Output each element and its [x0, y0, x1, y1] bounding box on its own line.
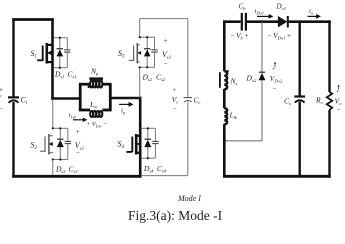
svg-text:Ns: Ns [230, 77, 238, 87]
diode Ds1 [57, 49, 64, 57]
transformer box [79, 83, 112, 111]
capacitor Cb [239, 3, 247, 31]
diode Ds2 [144, 49, 151, 57]
capacitor Co [284, 97, 305, 107]
snubber box S4 (Ds4 Cs4) [140, 128, 155, 158]
capacitor Cs3 [65, 141, 71, 143]
svg-text:ip: ip [121, 107, 126, 116]
junction dot node at Co branch [298, 20, 301, 23]
diode Do1 [276, 3, 288, 28]
wire right rail upper [328, 20, 330, 92]
diode Ds4 [144, 139, 151, 147]
svg-text:+: + [173, 87, 177, 94]
svg-text:S2: S2 [31, 141, 38, 152]
svg-text:−: − [337, 107, 341, 114]
junction dot node at Do2 branch [261, 20, 264, 23]
winding Np [88, 67, 103, 89]
svg-text:Vs3: Vs3 [162, 50, 172, 60]
svg-text:−: − [173, 106, 177, 113]
svg-text:Vc: Vc [172, 95, 179, 105]
svg-text:S3: S3 [118, 49, 125, 60]
svg-text:io: io [309, 8, 314, 16]
wire Co branch lower [299, 102, 301, 178]
clamp top wire thin [140, 18, 188, 20]
diode Ds3 [57, 139, 64, 147]
junction dot Co bottom [298, 175, 301, 178]
svg-text:Cs3: Cs3 [69, 165, 79, 175]
capacitor Cs4 [152, 141, 158, 143]
svg-text:V: V [0, 95, 2, 103]
junction dot S4 bottom [139, 175, 142, 178]
junction dot bottom S2 [52, 175, 55, 178]
winding Lm [89, 100, 102, 117]
svg-text:Ds1: Ds1 [54, 70, 64, 80]
label Vc [172, 87, 179, 113]
svg-text:Cs1: Cs1 [68, 70, 77, 80]
wire secondary bottom rail [223, 175, 331, 178]
wire left rail lower [12, 102, 14, 178]
junction dot rail at Do2 return [223, 139, 226, 142]
wire right rail lower [328, 110, 330, 178]
snubber box S1 (Ds1 Cs1) [53, 38, 68, 68]
wire secondary left rail lower [223, 124, 226, 177]
wire bottom rail primary [12, 175, 141, 178]
wire thin S3 bus [139, 18, 141, 37]
svg-text:S4: S4 [118, 140, 125, 151]
svg-text:Np: Np [90, 67, 99, 77]
svg-text:Ds2: Ds2 [142, 73, 153, 83]
svg-text:iDo1: iDo1 [255, 8, 265, 16]
svg-text:+ VLm −: + VLm − [87, 121, 108, 129]
snubber box S2 (Ds3 Cs3) [53, 128, 68, 159]
svg-text:Mode I: Mode I [177, 194, 201, 203]
svg-text:Cs2: Cs2 [156, 73, 166, 83]
wire Do2 branch vertical [261, 22, 263, 72]
wire S1 leg vertical [51, 18, 54, 99]
junction dots S4 cell [139, 127, 149, 159]
wire secondary top mid [247, 20, 278, 23]
svg-text:Vo: Vo [335, 97, 343, 107]
current arrow io [308, 8, 322, 19]
svg-text:+: + [336, 89, 340, 96]
label VDo2 [270, 62, 283, 94]
wire transformer to right leg [109, 97, 142, 100]
svg-text:iLm: iLm [69, 112, 77, 120]
capacitor Cc [184, 96, 201, 106]
svg-text:Cs4: Cs4 [157, 164, 167, 174]
snubber box S3 (Ds2 Cs2) [140, 37, 155, 67]
svg-text:+: + [164, 37, 168, 45]
wire thin S2 drain [52, 100, 54, 129]
svg-text:Do2: Do2 [246, 74, 258, 84]
current arrow iLm [69, 112, 88, 122]
svg-text:−: − [0, 105, 3, 113]
svg-text:Lm: Lm [89, 100, 98, 110]
svg-text:Fig.3(a): Mode -I: Fig.3(a): Mode -I [128, 208, 223, 223]
wire secondary left rail upper [223, 20, 226, 71]
node Vin marks (clipped at edge) [0, 86, 3, 113]
winding Ns [220, 70, 238, 89]
junction dots S3 cell [139, 36, 149, 68]
svg-text:Do1: Do1 [276, 3, 287, 12]
svg-text:S1: S1 [31, 49, 38, 60]
label Vs3 [162, 37, 172, 68]
svg-text:−: − [76, 149, 80, 157]
svg-text:Ro: Ro [315, 96, 324, 106]
wire Co branch upper [299, 20, 301, 95]
wire Do2 branch horizontal [224, 140, 262, 142]
clamp right wire thin lower [187, 100, 189, 175]
svg-text:+: + [272, 66, 276, 73]
svg-text:VDo2: VDo2 [270, 74, 283, 84]
wire secondary top right [289, 20, 331, 23]
svg-text:Ds4: Ds4 [143, 164, 154, 174]
svg-text:Ci: Ci [21, 96, 28, 107]
clamp right wire thin upper [187, 19, 189, 97]
svg-text:Co: Co [284, 97, 292, 107]
resistor Ro [315, 92, 332, 110]
label Vs2 [75, 128, 85, 157]
svg-text:+: + [76, 128, 80, 136]
label Vo [335, 85, 343, 115]
capacitor Cs2 [151, 50, 157, 52]
transistor S2 (off, thin) [31, 134, 53, 155]
clamp bottom wire thin [141, 175, 188, 177]
svg-text:Llk: Llk [229, 111, 238, 121]
diode Do2 [246, 72, 266, 83]
svg-text:+: + [0, 86, 3, 94]
svg-text:−: − [273, 86, 277, 93]
svg-text:Cb: Cb [239, 3, 247, 12]
wire secondary left rail mid [223, 89, 226, 108]
transistor S4 [118, 134, 141, 155]
wire Do2 branch lower [261, 80, 263, 141]
wire node A to transformer [51, 97, 80, 100]
svg-text:Cc: Cc [194, 96, 201, 106]
wire right leg vertical thick [139, 97, 142, 178]
transistor S3 (off, thin) [118, 43, 141, 64]
current arrow iDo1 [255, 8, 274, 19]
wire thin S2 source to bottom [52, 160, 54, 177]
current arrow ip [119, 102, 134, 115]
wire secondary top left [223, 20, 241, 23]
wire top-left horizontal [12, 18, 54, 21]
capacitor Cs1 [64, 50, 70, 52]
wire left rail upper [12, 18, 14, 96]
svg-text:− Vb +: − Vb + [231, 32, 249, 41]
inductor Llk [224, 108, 238, 124]
svg-text:Ds3: Ds3 [55, 165, 66, 175]
svg-text:−: − [164, 60, 168, 68]
junction dots S2 cell [52, 127, 62, 160]
transistor S1 [31, 43, 53, 64]
svg-text:− VDo1 +: − VDo1 + [268, 32, 291, 41]
junction dots S1 cell [51, 37, 61, 69]
capacitor Ci [8, 96, 28, 107]
